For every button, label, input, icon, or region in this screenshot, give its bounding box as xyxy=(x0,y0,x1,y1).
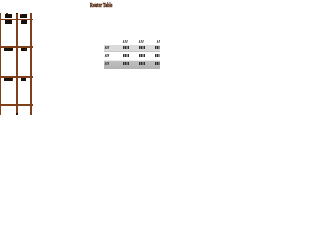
row 3: value 4567 xyxy=(139,62,145,65)
rung 1 xyxy=(0,19,33,20)
header Col 1 xyxy=(123,40,129,43)
left post (rail 1) xyxy=(0,13,1,115)
label below rung1 bay1 xyxy=(5,20,12,24)
row 2: value 1234 (clipped) xyxy=(155,54,161,57)
row 3: Row label xyxy=(104,62,109,65)
label below rung3 bay1 xyxy=(4,78,13,81)
red accent below rung3 bay1 xyxy=(12,79,13,81)
row 1: value 4567 xyxy=(139,46,145,49)
junction dot bottom of rail 2 xyxy=(16,113,18,115)
label below rung2 bay2 xyxy=(21,48,28,51)
red accent below rung1 bay2 xyxy=(21,20,23,21)
label above rung1 bay2 xyxy=(20,14,27,18)
label below rung2 bay1 xyxy=(4,48,13,51)
header Col 3 (clipped) xyxy=(157,40,163,43)
table separator 1 xyxy=(104,51,160,53)
rung 4 xyxy=(0,104,33,106)
table row 3 band xyxy=(104,61,160,69)
red accent above rung1 bay1 xyxy=(6,13,7,14)
row 1: value 1234 xyxy=(123,46,129,49)
row 1: Row label xyxy=(104,46,109,49)
label above rung1 bay1 xyxy=(5,14,13,18)
table separator 2 xyxy=(104,60,160,61)
row 2: value 1234 xyxy=(123,54,129,57)
table row 1 band xyxy=(104,45,160,51)
row 3: value 1234 xyxy=(123,62,129,65)
label below rung1 bay2 xyxy=(21,20,28,24)
row 3: value 1234 (clipped) xyxy=(155,62,161,65)
data table container xyxy=(104,39,160,69)
row 1: value 1234 (clipped) xyxy=(155,46,161,49)
row 2: value 4567 xyxy=(139,54,145,57)
red accent above rung1 bay2 xyxy=(20,14,22,15)
right post (rail 3) xyxy=(30,13,32,115)
red accent below rung2 bay1 xyxy=(12,50,13,51)
junction dot top of rail 2 xyxy=(16,13,18,15)
red accent below rung2 bay2 xyxy=(25,49,26,51)
middle post (rail 2) xyxy=(16,13,18,115)
row 2: Row label xyxy=(104,54,109,57)
label below rung3 bay2 xyxy=(21,78,26,81)
rung 2 xyxy=(0,46,33,48)
rung 3 xyxy=(0,76,33,78)
header Col 2 xyxy=(139,40,145,43)
title: plan caption xyxy=(90,2,112,10)
